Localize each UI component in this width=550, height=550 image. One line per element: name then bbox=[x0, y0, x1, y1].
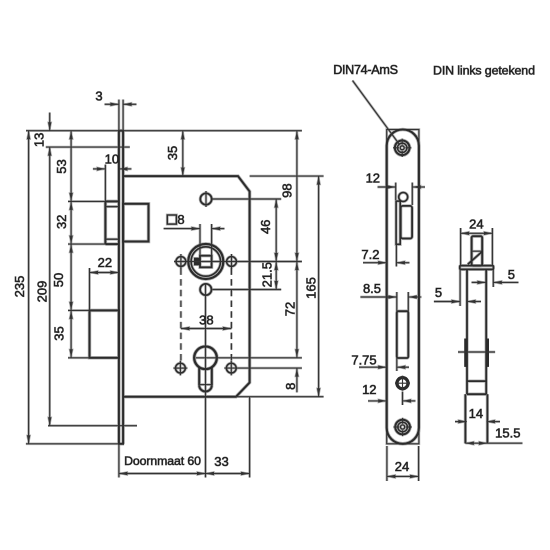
svg-text:7.75: 7.75 bbox=[351, 352, 376, 367]
svg-text:46: 46 bbox=[258, 220, 273, 234]
svg-text:24: 24 bbox=[469, 217, 483, 232]
svg-text:35: 35 bbox=[52, 326, 67, 340]
svg-text:72: 72 bbox=[282, 302, 297, 316]
svg-text:21.5: 21.5 bbox=[259, 262, 274, 287]
svg-text:10: 10 bbox=[105, 152, 119, 167]
svg-text:12: 12 bbox=[362, 382, 376, 397]
svg-text:22: 22 bbox=[98, 255, 112, 270]
svg-text:209: 209 bbox=[35, 281, 50, 303]
svg-text:7.2: 7.2 bbox=[361, 247, 379, 262]
svg-text:5: 5 bbox=[435, 285, 442, 300]
svg-text:165: 165 bbox=[303, 277, 318, 299]
svg-text:8: 8 bbox=[177, 212, 184, 227]
svg-text:8: 8 bbox=[283, 383, 298, 390]
svg-text:38: 38 bbox=[199, 313, 213, 328]
svg-text:32: 32 bbox=[54, 215, 69, 229]
svg-text:3: 3 bbox=[95, 89, 102, 104]
svg-text:235: 235 bbox=[12, 276, 27, 298]
svg-text:98: 98 bbox=[279, 183, 294, 197]
svg-text:DIN74-AmS: DIN74-AmS bbox=[333, 63, 397, 77]
svg-text:50: 50 bbox=[51, 273, 66, 287]
svg-text:13: 13 bbox=[32, 133, 47, 147]
svg-text:14: 14 bbox=[469, 406, 483, 421]
svg-text:24: 24 bbox=[395, 459, 409, 474]
svg-text:53: 53 bbox=[54, 159, 69, 173]
svg-text:35: 35 bbox=[165, 146, 180, 160]
svg-text:12: 12 bbox=[366, 171, 380, 186]
svg-text:5: 5 bbox=[508, 267, 515, 282]
svg-text:8.5: 8.5 bbox=[363, 281, 381, 296]
svg-text:15.5: 15.5 bbox=[495, 426, 520, 441]
svg-text:Doornmaat 60: Doornmaat 60 bbox=[124, 454, 201, 468]
svg-text:33: 33 bbox=[214, 454, 228, 469]
svg-text:DIN links getekend: DIN links getekend bbox=[433, 63, 535, 77]
